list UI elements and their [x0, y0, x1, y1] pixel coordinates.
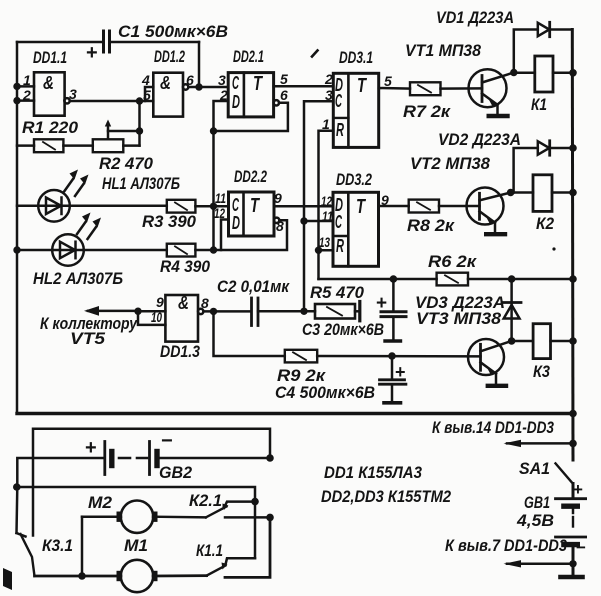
svg-text:К1.1: К1.1 — [196, 541, 223, 560]
svg-text:T: T — [250, 195, 260, 217]
svg-text:C1 500мк×6В: C1 500мк×6В — [118, 22, 228, 41]
svg-text:+: + — [395, 362, 406, 382]
wire VT3 collector node to K3 — [512, 340, 533, 343]
wire C-clock vertical net — [304, 101, 333, 311]
svg-text:+: + — [376, 293, 387, 314]
capacitor C3 — [381, 279, 406, 341]
svg-text:C: C — [335, 91, 343, 111]
svg-text:К1: К1 — [531, 95, 547, 114]
svg-text:К3: К3 — [533, 362, 550, 381]
svg-text:+: + — [86, 42, 98, 64]
svg-text:+: + — [573, 480, 583, 499]
gate DD1.2 — [153, 73, 188, 117]
wire arrow to pin14 DD1-DD3 — [504, 440, 574, 447]
svg-text:2: 2 — [219, 87, 228, 103]
node dots lower — [13, 483, 21, 491]
flip-flop DD3.1 — [333, 73, 378, 147]
svg-text:R6 2к: R6 2к — [428, 252, 477, 271]
wire R6 to bus — [468, 278, 573, 281]
svg-text:GB2: GB2 — [159, 463, 193, 482]
switch K1.1 contact — [226, 558, 256, 564]
switch K2.1 blade — [206, 504, 229, 518]
svg-text:DD2,DD3 К155ТМ2: DD2,DD3 К155ТМ2 — [321, 487, 451, 506]
svg-text:T: T — [356, 196, 366, 218]
svg-text:−: − — [161, 430, 173, 452]
svg-text:8: 8 — [201, 295, 209, 311]
svg-text:8: 8 — [276, 218, 284, 234]
svg-text:К2.1: К2.1 — [189, 491, 222, 510]
node dots upper — [13, 83, 20, 90]
svg-text:R: R — [336, 236, 344, 256]
svg-text:DD3.1: DD3.1 — [339, 48, 373, 67]
wire bottom rail — [17, 412, 573, 415]
svg-text:12: 12 — [321, 193, 332, 209]
wire DD1.2 out pin6 to DD2.1 pin3 — [188, 86, 228, 89]
wire VT2 collector node to K2 — [511, 191, 533, 194]
svg-text:VD1 Д223А: VD1 Д223А — [436, 8, 514, 27]
relay K2 — [533, 175, 552, 212]
svg-text:М2: М2 — [88, 493, 113, 512]
svg-text:D: D — [232, 213, 240, 233]
flip-flop DD2.1 — [228, 73, 279, 117]
stray mark — [312, 51, 318, 57]
svg-text:К выв.7 DD1-DD3: К выв.7 DD1-DD3 — [445, 536, 567, 555]
wire DD3.2 pin9 to R8 — [379, 205, 409, 208]
svg-text:GB1: GB1 — [524, 493, 550, 512]
motor M2 — [117, 501, 158, 533]
resistor R9 — [285, 350, 317, 363]
svg-text:D: D — [232, 92, 240, 112]
op-amp gate DD1.1 — [34, 72, 70, 115]
svg-text:+: + — [85, 437, 97, 459]
svg-text:VT5: VT5 — [70, 329, 106, 348]
svg-text:10: 10 — [151, 309, 162, 325]
svg-text:4,5В: 4,5В — [516, 511, 554, 530]
svg-text:12: 12 — [214, 205, 225, 221]
svg-text:М1: М1 — [124, 536, 148, 555]
svg-text:DD1.2: DD1.2 — [154, 47, 185, 66]
wire R1 to R2 — [63, 144, 92, 147]
svg-text:&: & — [178, 293, 189, 313]
wire vertical Q1-bar net — [212, 131, 215, 250]
ground VT1 emitter — [489, 105, 508, 116]
wire R4 right — [195, 249, 213, 252]
switch SA1 — [556, 463, 572, 482]
resistor R3 — [167, 200, 196, 213]
resistor R1 — [34, 139, 63, 152]
transistor VT2 — [467, 188, 511, 225]
wire R5 right plate — [355, 302, 360, 321]
wire VT1 collector node to K1 — [514, 72, 535, 75]
svg-text:2: 2 — [22, 87, 31, 103]
relay K1 — [535, 56, 553, 92]
wire oscillator to R9 — [214, 311, 285, 356]
svg-text:R5 470: R5 470 — [310, 283, 365, 302]
wire HL1 row — [17, 205, 167, 208]
LED HL2 — [52, 234, 84, 266]
resistor R5 — [315, 304, 355, 319]
svg-text:C3 20мк×6В: C3 20мк×6В — [302, 320, 384, 339]
wire K3 to bus — [551, 340, 574, 343]
svg-text:DD1.1: DD1.1 — [33, 48, 67, 67]
wire DD3.2 pin13 — [319, 249, 334, 252]
wire DD3.1 pin5 to R7 — [379, 87, 410, 90]
flip-flop DD2.2 — [229, 192, 280, 236]
ground VT2 emitter — [486, 223, 505, 235]
svg-text:5: 5 — [143, 87, 151, 103]
wire R-reset vertical net — [319, 131, 334, 279]
wire bus below SA1 — [572, 484, 575, 499]
diode VD2 — [538, 141, 550, 155]
svg-text:9: 9 — [381, 192, 389, 208]
wire right leg of motor box — [225, 517, 270, 577]
svg-text:11: 11 — [215, 190, 226, 206]
wire M2 left leg — [81, 517, 84, 576]
battery GB1 — [556, 499, 586, 545]
svg-text:VT1 МП38: VT1 МП38 — [405, 41, 482, 60]
relay K3 — [533, 324, 550, 359]
resistor R7 — [410, 82, 441, 95]
svg-text:5: 5 — [384, 73, 392, 89]
wire C1 down to DD1.2 output node — [198, 42, 201, 87]
ink speck — [552, 247, 555, 250]
svg-text:R4 390: R4 390 — [160, 257, 210, 276]
svg-text:3: 3 — [218, 72, 226, 88]
wire R2 trimmer tap — [105, 120, 140, 140]
wire left bus to R1 — [17, 144, 34, 147]
transistor VT1 — [469, 69, 514, 107]
svg-text:HL2 АЛ307Б: HL2 АЛ307Б — [33, 269, 123, 288]
svg-text:R2 470: R2 470 — [99, 154, 154, 173]
wire arrow to pin7 DD1-DD3 — [504, 560, 574, 567]
svg-text:R3 390: R3 390 — [142, 212, 197, 231]
wire R2 right — [123, 144, 139, 147]
wire DD1.1 pin2 — [17, 99, 34, 102]
diode VD3 — [502, 279, 521, 341]
wire left vertical bus — [16, 42, 19, 414]
svg-text:DD1.3: DD1.3 — [160, 342, 200, 361]
svg-text:C2 0,01мк: C2 0,01мк — [217, 277, 290, 296]
svg-text:6: 6 — [186, 72, 194, 88]
wire motor box top rail — [33, 429, 270, 536]
svg-text:1: 1 — [322, 116, 330, 132]
wire DD1.1 pin3 to DD1.2 pins 4,5 — [70, 100, 154, 103]
capacitor C2 — [252, 298, 259, 326]
wire DD1.3 pin8 to C2 — [203, 310, 250, 313]
wire VD1 branch — [514, 30, 573, 73]
wire DD2.1 feedback pin6 to pin2 — [214, 101, 288, 131]
switch K3.1 contact hook — [17, 533, 26, 537]
switch K3.1 blade — [21, 534, 35, 576]
wire DD2.2 feedback pin8 to pin12 — [214, 220, 288, 251]
wire M2 top feed — [17, 487, 255, 558]
battery GB2 — [105, 442, 157, 475]
wire bus below GB1 — [561, 547, 583, 578]
transistor VT3 — [468, 339, 512, 375]
svg-text:VT3 МП38: VT3 МП38 — [416, 309, 502, 328]
wire R3 to DD2.2 pin11 — [195, 205, 228, 208]
resistor R4 — [167, 244, 196, 257]
battery GB2 wires — [17, 458, 270, 487]
svg-text:11: 11 — [322, 208, 333, 224]
LED HL2 arrows — [77, 213, 101, 240]
svg-text:C4 500мк×6В: C4 500мк×6В — [275, 383, 375, 402]
wire K1 to bus — [553, 72, 573, 75]
wire R6 row — [319, 278, 437, 281]
svg-text:2: 2 — [324, 71, 333, 87]
LED HL1 arrows — [65, 170, 89, 197]
wire DD2.2 pin9 to DD3.2 pin12 — [274, 205, 333, 208]
capacitor C1 — [104, 31, 110, 52]
wire R9 to VT3 base — [317, 355, 480, 358]
wire DD1.1 pin1 — [17, 85, 34, 88]
flip-flop DD3.2 — [333, 192, 379, 266]
wire battery minus lead down — [15, 487, 18, 533]
svg-text:К2: К2 — [536, 214, 554, 233]
wire DD3.2 pin11 — [304, 220, 333, 223]
wire arrow to collector VT5 — [84, 306, 138, 316]
svg-text:4: 4 — [141, 72, 150, 88]
svg-text:9: 9 — [156, 294, 164, 310]
wire HL2 row — [17, 249, 167, 252]
wire K2 to bus — [552, 191, 573, 194]
svg-text:SA1: SA1 — [519, 459, 550, 478]
svg-text:−: − — [576, 538, 586, 557]
svg-text:C: C — [335, 212, 343, 232]
wire VD2 branch — [514, 148, 573, 193]
svg-text:&: & — [160, 73, 171, 93]
svg-text:R8 2к: R8 2к — [407, 216, 455, 235]
svg-text:DD2.2: DD2.2 — [234, 167, 267, 186]
svg-text:R7 2к: R7 2к — [403, 102, 451, 121]
svg-text:1: 1 — [23, 72, 31, 88]
wire R8 to VT2 base — [439, 205, 480, 208]
svg-text:3: 3 — [69, 86, 77, 102]
wire bottom motor rail — [35, 574, 207, 577]
capacitor C4 — [380, 356, 406, 403]
svg-text:DD3.2: DD3.2 — [336, 170, 372, 189]
svg-text:К3.1: К3.1 — [42, 536, 73, 555]
wire R7 to VT1 base — [441, 87, 483, 90]
wire top rail to C1 — [17, 41, 199, 44]
svg-text:R1 220: R1 220 — [22, 118, 79, 137]
gate DD1.3 — [165, 295, 203, 342]
svg-text:C: C — [232, 73, 240, 93]
page corner mark — [3, 568, 12, 590]
svg-text:R: R — [336, 120, 344, 140]
svg-text:VD2 Д223А: VD2 Д223А — [438, 130, 521, 149]
svg-text:T: T — [253, 73, 263, 95]
diode VD1 — [538, 22, 550, 36]
motor M1 — [117, 560, 158, 592]
svg-text:DD2.1: DD2.1 — [233, 47, 264, 66]
wire DD1.3 pins 9,10 tie — [138, 311, 165, 325]
svg-text:VT2 МП38: VT2 МП38 — [410, 154, 491, 173]
svg-text:13: 13 — [319, 234, 330, 250]
svg-text:C: C — [232, 195, 240, 215]
wire right supply bus — [571, 30, 575, 461]
wire C2 to R5 — [258, 310, 315, 313]
wire pin4 stub — [145, 87, 153, 101]
switch K1.1 blade — [207, 563, 228, 576]
svg-text:&: & — [43, 73, 54, 93]
wire M2 row — [82, 515, 270, 518]
svg-text:9: 9 — [274, 190, 282, 206]
svg-text:DD1 К155ЛА3: DD1 К155ЛА3 — [324, 463, 422, 482]
LED HL1 — [38, 190, 70, 222]
svg-text:5: 5 — [280, 71, 288, 87]
svg-text:HL1 АЛ307Б: HL1 АЛ307Б — [102, 174, 180, 193]
svg-text:6: 6 — [280, 87, 288, 103]
resistor R8 — [409, 200, 439, 213]
ground VT3 emitter — [488, 374, 506, 386]
resistor R6 — [437, 273, 468, 286]
svg-text:К выв.14 DD1-DD3: К выв.14 DD1-DD3 — [432, 418, 554, 437]
switch K2.1 contact — [224, 502, 255, 508]
wire DD2.1 pin5 to DD3.1 pin2 — [274, 85, 334, 88]
svg-text:T: T — [357, 75, 367, 97]
resistor R2 — [93, 139, 124, 152]
wire node to R2 tap — [138, 101, 141, 146]
svg-text:3: 3 — [325, 87, 333, 103]
